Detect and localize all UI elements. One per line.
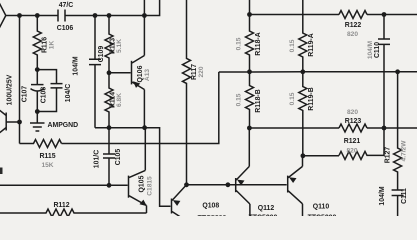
resistor R118-A value 0.15 <box>236 0 263 72</box>
svg-text:R119-A: R119-A <box>308 33 315 56</box>
wire Q112 emitter down <box>249 204 251 217</box>
transistor Q108 <box>172 185 227 222</box>
wire down to R115 <box>19 122 21 144</box>
svg-text:C108: C108 <box>41 87 48 104</box>
resistor R113 value 5.1K <box>105 16 123 73</box>
wire Q112 collector up <box>248 128 250 166</box>
svg-text:C105: C105 <box>115 149 122 166</box>
junction <box>17 13 22 18</box>
wire top rail right of C106 <box>65 0 160 16</box>
svg-text:104/M: 104/M <box>73 56 80 75</box>
wire Q105 emitter down <box>146 206 148 214</box>
svg-text:4.7/2W: 4.7/2W <box>401 140 408 162</box>
svg-text:Q110: Q110 <box>313 204 330 211</box>
junction <box>184 182 189 187</box>
resistor R116 value 1K <box>33 16 55 70</box>
wire top rail left <box>6 15 58 17</box>
svg-text:104/C: 104/C <box>65 84 72 102</box>
resistor R119-B value 0.15 <box>289 72 315 156</box>
wire R115 to mid rail riser <box>62 72 219 144</box>
wire Q110 emitter down <box>302 204 304 217</box>
resistor R118-B value 0.15 <box>236 72 263 128</box>
junction <box>107 70 112 75</box>
svg-text:Q112: Q112 <box>258 205 275 212</box>
junction <box>301 153 306 158</box>
svg-text:100U/25V: 100U/25V <box>7 74 14 105</box>
transistor Q105 type C1815 <box>129 170 154 206</box>
wire C108 branch top <box>37 70 56 84</box>
svg-text:C1815: C1815 <box>147 176 154 196</box>
transistor Q106 type A13 <box>132 56 151 90</box>
wire lower-right rail <box>250 127 340 129</box>
wire Q110 collector up <box>302 156 304 167</box>
wire bottom-left rail <box>0 184 128 186</box>
svg-text:C107: C107 <box>22 86 29 103</box>
svg-text:0.15: 0.15 <box>289 39 296 52</box>
svg-text:6.8K: 6.8K <box>116 93 123 107</box>
svg-text:0.15: 0.15 <box>236 93 243 106</box>
capacitor C109 value 104/M <box>73 16 105 128</box>
resistor R117 value 220 <box>183 0 205 185</box>
junction <box>395 69 400 74</box>
junction <box>107 13 112 18</box>
svg-text:R119-B: R119-B <box>308 87 315 110</box>
junction <box>300 69 305 74</box>
svg-text:AMPGND: AMPGND <box>48 122 79 129</box>
svg-text:5.1K: 5.1K <box>116 39 123 53</box>
wire Q105 collector up <box>144 128 147 171</box>
wire Q106 base <box>109 72 131 74</box>
wire output-base line <box>187 184 287 186</box>
wire input node down <box>19 16 21 123</box>
wire mid-left rail <box>95 128 171 207</box>
capacitor C107 value 100U/25V <box>7 70 45 112</box>
svg-text:C106: C106 <box>57 25 74 32</box>
resistor R121 value 820 <box>303 128 384 159</box>
svg-text:Q108: Q108 <box>202 202 219 209</box>
svg-text:104/M: 104/M <box>379 186 386 205</box>
svg-text:R127: R127 <box>385 147 392 164</box>
junction <box>247 126 252 131</box>
transistor Q112 <box>236 166 278 221</box>
junction <box>142 125 147 130</box>
svg-text:TTC5200: TTC5200 <box>198 215 227 216</box>
wire C108 branch bottom <box>37 88 56 112</box>
junction <box>382 12 387 17</box>
junction <box>107 125 112 130</box>
input arrow <box>0 3 6 29</box>
resistor R119-A value 0.15 <box>289 0 315 72</box>
wire top-right rail end <box>367 14 417 16</box>
junction <box>35 67 40 72</box>
svg-text:TTC5200: TTC5200 <box>249 215 278 217</box>
wire Q106 emitter down <box>143 90 145 128</box>
svg-text:Q105: Q105 <box>139 175 146 192</box>
wire lower-right rail end <box>367 127 417 129</box>
svg-text:820: 820 <box>346 148 357 155</box>
svg-text:C111: C111 <box>401 188 408 204</box>
resistor R115 value 15K <box>20 140 62 170</box>
svg-text:R121: R121 <box>344 138 361 145</box>
resistor R123 value 820 <box>339 109 367 132</box>
svg-text:0.15: 0.15 <box>289 92 296 105</box>
svg-text:R116: R116 <box>42 37 49 53</box>
wire Q106 collector up <box>143 0 145 56</box>
svg-text:R118-B: R118-B <box>255 89 262 112</box>
svg-text:104/M: 104/M <box>367 40 374 59</box>
junction <box>142 13 147 18</box>
left edge scan artifact <box>0 168 3 175</box>
resistor R112 <box>0 202 147 217</box>
svg-text:C110: C110 <box>374 42 381 58</box>
junction <box>17 120 22 125</box>
capacitor C106 value 47/C <box>57 2 74 32</box>
svg-text:R112: R112 <box>53 202 69 209</box>
resistor R122 value 820 <box>339 11 367 39</box>
svg-text:820: 820 <box>347 31 358 38</box>
junction <box>382 126 387 131</box>
svg-text:47/C: 47/C <box>59 2 74 9</box>
svg-text:15K: 15K <box>41 162 53 169</box>
resistor R127 value 4.7/2W <box>385 72 408 190</box>
wire top-right rail <box>250 14 340 16</box>
svg-text:TTC5200: TTC5200 <box>308 215 337 217</box>
ground AMPGND <box>30 112 78 132</box>
svg-text:Q106: Q106 <box>137 65 144 82</box>
capacitor C105 value 101/C <box>94 128 122 186</box>
capacitor C111 value 104/M <box>379 186 408 217</box>
svg-text:220: 220 <box>198 66 205 77</box>
svg-text:101/C: 101/C <box>94 150 101 168</box>
transistor at left edge <box>0 109 20 134</box>
capacitor C108 value 104/C <box>41 84 73 104</box>
svg-text:R123: R123 <box>345 118 362 125</box>
svg-text:1K: 1K <box>49 41 56 50</box>
junction <box>93 13 98 18</box>
junction <box>35 13 40 18</box>
junction <box>247 12 252 17</box>
junction <box>226 182 231 187</box>
svg-text:R122: R122 <box>345 22 362 29</box>
svg-text:R118-A: R118-A <box>255 32 262 55</box>
svg-text:A13: A13 <box>144 69 151 81</box>
junction <box>247 69 252 74</box>
svg-text:820: 820 <box>347 109 358 116</box>
svg-text:R115: R115 <box>39 153 55 160</box>
transistor Q110 <box>288 166 337 221</box>
junction <box>35 109 40 114</box>
junction <box>107 183 112 188</box>
resistor R114 value 6.8K <box>105 73 123 128</box>
svg-text:0.15: 0.15 <box>236 37 243 50</box>
capacitor C110 value 104/M <box>367 15 390 129</box>
wire mid output rail <box>219 71 417 73</box>
